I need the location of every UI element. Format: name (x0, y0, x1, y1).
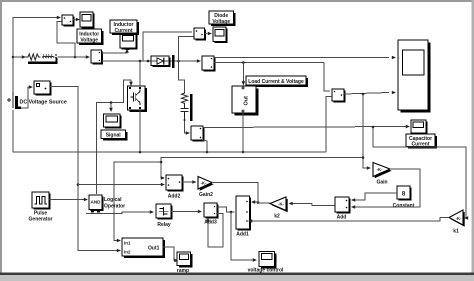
label Load Current & Voltage (246, 76, 308, 87)
capacitor current measurement CM2 (191, 126, 205, 142)
RL branch wire with arrow (13, 56, 26, 58)
relay (156, 204, 173, 228)
svg-text:Generator: Generator (29, 217, 53, 223)
gain k1 (west pointing) (449, 210, 465, 235)
logical operator AND (89, 195, 125, 213)
label Signal (101, 130, 128, 141)
inductor L arcs (42, 55, 54, 58)
svg-text:Add1: Add1 (236, 232, 249, 238)
svg-text:-K-: -K- (377, 167, 383, 172)
svg-text:Add2: Add2 (168, 194, 181, 200)
svg-text:-K-: -K- (278, 202, 284, 207)
svg-text:AND: AND (91, 200, 102, 205)
wire west to In1 of Out1 subsystem (114, 162, 161, 241)
capacitor C plates (181, 108, 189, 110)
sum Add1 (236, 196, 251, 238)
svg-text:Add: Add (337, 215, 347, 221)
gain Gain (373, 163, 392, 186)
svg-text:Gain2: Gain2 (199, 192, 213, 198)
display ramp (177, 252, 193, 274)
svg-text:Operator: Operator (104, 204, 125, 210)
scope Inductor Voltage (80, 12, 95, 29)
wire battery to source CM (21, 87, 30, 108)
wire diode VM plus (143, 32, 192, 61)
wire capacitor current signal (203, 127, 406, 128)
subsystem Out1 (122, 238, 165, 258)
svg-text:Voltage: Voltage (80, 38, 98, 44)
svg-text:-K-: -K- (201, 180, 207, 185)
wire Add to k2 (312, 204, 335, 206)
ground rail (13, 110, 326, 152)
svg-text:ramp: ramp (177, 268, 189, 274)
load current measurement CM-L (202, 56, 216, 72)
sum Add2 (166, 175, 184, 200)
wire k1 to Add1 (249, 218, 449, 222)
wire VM3 out to big scope (344, 93, 389, 95)
IGBT Q1 (128, 86, 148, 112)
svg-text:Out1: Out1 (148, 246, 160, 252)
wire CM2 bottom to rail (201, 140, 207, 153)
wire top-left to Vmeas1 (13, 18, 58, 58)
wire down into Signal scope (110, 103, 112, 109)
svg-text:-K-: -K- (456, 216, 462, 221)
wire cap current to k1 (373, 127, 466, 218)
node dot at 75,57 (74, 56, 77, 59)
label Inductor Voltage (77, 29, 104, 45)
wire junction down to voltage control (231, 212, 253, 260)
svg-text:Inductor: Inductor (79, 31, 99, 37)
wire down into Out load (242, 63, 244, 83)
wire load VM minus to rail (326, 97, 332, 153)
wire node to IGBT collector (139, 61, 141, 86)
wire Add3 to Add1 (217, 207, 235, 212)
wire Out1 to ramp (163, 247, 175, 261)
svg-text:voltage control: voltage control (248, 268, 284, 274)
wire relay to Add3 (171, 211, 198, 213)
gate signal wire from AND up (97, 80, 132, 194)
resistor vertical zigzag (182, 92, 188, 106)
constant 8 (393, 186, 415, 209)
wire VM1 to scope1 (73, 19, 76, 21)
wire diode VM minus (179, 37, 195, 62)
main wire y61 CM1 to load CM (102, 60, 200, 62)
display voltage control (248, 252, 284, 274)
diode D1 (151, 55, 174, 68)
wire Add2 to Gain2 (182, 181, 193, 183)
display Capacitor Current (411, 120, 428, 135)
voltage measurement VM2 diode (194, 28, 206, 41)
RC branch shadow (190, 94, 193, 121)
wire to load VM plus (324, 63, 330, 92)
svg-text:k1: k1 (453, 229, 459, 235)
pulse generator (29, 192, 53, 223)
wire load voltage feedback down (363, 94, 369, 168)
wire Vmeas1 minus loop (57, 22, 75, 57)
resistor R zigzag (26, 54, 41, 60)
svg-text:k2: k2 (274, 214, 280, 220)
wire CM1 to display (102, 51, 128, 53)
sum Add (335, 197, 351, 221)
svg-text:Signal: Signal (106, 133, 122, 139)
wire to Add2 input2 (78, 184, 162, 186)
source current measurement CMs (34, 81, 52, 96)
svg-text:Gain: Gain (376, 180, 387, 186)
svg-text:Add3: Add3 (204, 220, 217, 226)
wire IGBT emitter to rail (139, 110, 141, 152)
wire junction to k2 (258, 202, 270, 204)
current measurement CM1 (91, 50, 103, 65)
load voltage measurement VM3 (332, 89, 346, 103)
svg-text:Relay: Relay (157, 222, 171, 228)
svg-text:Out: Out (244, 96, 250, 106)
display Inductor Current (120, 33, 138, 50)
wire Gain2 around to Add1 (212, 183, 258, 203)
sum Add3 (204, 203, 219, 226)
control wire y157 from load voltage junction (161, 158, 362, 179)
big scope (398, 40, 430, 112)
node A dot left (12, 56, 15, 59)
wire Out bottom to rail (242, 113, 244, 152)
svg-text:Current: Current (114, 28, 132, 34)
svg-text:Voltage: Voltage (212, 19, 230, 25)
svg-text:in1: in1 (124, 241, 131, 246)
DC voltage source battery (7, 57, 67, 109)
voltage measurement VM1 (62, 15, 75, 27)
label Inductor Current (110, 20, 139, 35)
label Diode Voltage (209, 11, 236, 26)
svg-text:Constant: Constant (393, 203, 415, 209)
scope Diode Voltage (213, 27, 228, 43)
wire Add3 feedback U loop (208, 214, 223, 248)
svg-text:Logical: Logical (104, 197, 122, 203)
wire pulse gen to AND (49, 199, 85, 201)
gain k2 (west pointing) (270, 197, 288, 220)
svg-text:in2: in2 (124, 250, 131, 255)
subsystem Out (load) (232, 86, 259, 116)
RL branch shadow (28, 62, 58, 65)
wire VM2 to scope2 (205, 33, 208, 35)
wire load plus rail y62 (214, 62, 324, 64)
wire into CM2 (185, 121, 188, 133)
gain Gain2 (198, 177, 214, 199)
wire RL to CM1 (58, 56, 88, 58)
wire load current to big scope (214, 57, 389, 59)
svg-text:Load Current & Voltage: Load Current & Voltage (248, 79, 304, 85)
label Capacitor Current (406, 134, 437, 149)
wire constant to Add (353, 193, 397, 200)
wire source current signal down (50, 87, 118, 251)
wire AND feet to relay (86, 212, 150, 214)
wire Gain around to Add (353, 169, 420, 207)
scope Signal (104, 114, 122, 129)
capacitor branch from diode node (179, 61, 185, 92)
svg-text:DC Voltage Source: DC Voltage Source (20, 100, 67, 106)
